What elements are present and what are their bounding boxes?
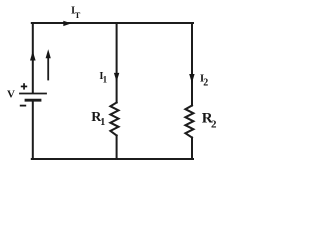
svg-text:2: 2 — [203, 78, 208, 89]
svg-text:1: 1 — [100, 117, 105, 128]
svg-text:T: T — [75, 10, 81, 20]
svg-text:1: 1 — [103, 74, 108, 84]
svg-text:V: V — [7, 88, 15, 100]
svg-text:2: 2 — [211, 119, 217, 131]
